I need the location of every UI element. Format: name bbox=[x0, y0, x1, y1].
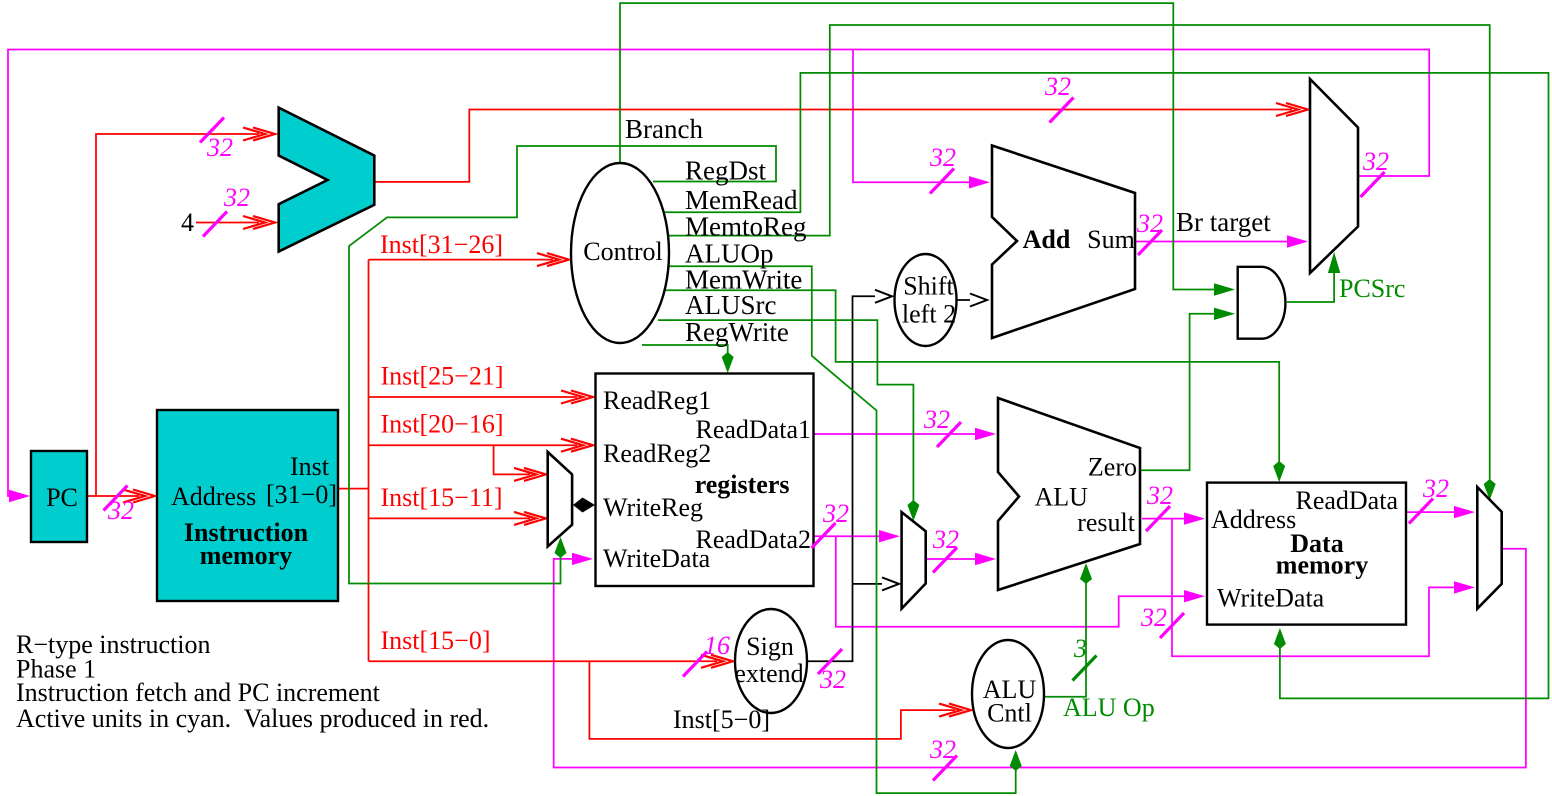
arrowhead into mux M4 input 0 bbox=[1454, 506, 1475, 518]
wire net ALU control lines from ALU Cntl to ALU bbox=[1045, 577, 1087, 697]
mux M3 (PCSrc mux) bbox=[1310, 79, 1358, 273]
svg-text:Inst[31−26]: Inst[31−26] bbox=[380, 230, 503, 259]
svg-text:Inst[20−16]: Inst[20−16] bbox=[381, 410, 504, 439]
wire net Shift left 2 output to Add input 2 bbox=[956, 299, 970, 301]
svg-text:32: 32 bbox=[1140, 603, 1167, 632]
arrowhead into Data memory Address bbox=[1184, 512, 1205, 524]
svg-text:memory: memory bbox=[200, 541, 292, 570]
svg-text:Shift: Shift bbox=[903, 272, 954, 301]
svg-text:32: 32 bbox=[1146, 481, 1173, 510]
wire net RegDst from Control to mux M1 select bbox=[349, 146, 776, 584]
svg-text:Address: Address bbox=[171, 482, 256, 511]
svg-text:RegWrite: RegWrite bbox=[685, 317, 789, 347]
svg-text:32: 32 bbox=[223, 183, 250, 212]
arrowhead into Data memory bottom MemRead bbox=[1274, 628, 1286, 649]
svg-text:Inst[15−0]: Inst[15−0] bbox=[381, 626, 491, 655]
wire net Inst[31-26] to Control bbox=[369, 259, 554, 261]
wire net PCnext: mux M3 output right, up, left along top, down to PC input bbox=[8, 50, 1429, 497]
bus width slash on PC to Instruction memory bbox=[104, 486, 128, 511]
svg-text:result: result bbox=[1077, 508, 1136, 537]
svg-text:left 2: left 2 bbox=[902, 300, 956, 329]
wire net ReadData1 to ALU input 1 bbox=[812, 433, 980, 435]
bus width slash on Sign extend output bbox=[818, 649, 842, 674]
wire net ALUSrc from Control to mux M2 select bbox=[658, 320, 913, 507]
svg-text:extend: extend bbox=[734, 659, 803, 688]
arrowhead into ReadReg1 bbox=[561, 391, 593, 404]
arrowhead into mux M4 select bbox=[1484, 479, 1496, 500]
svg-text:Inst[15−11]: Inst[15−11] bbox=[381, 483, 503, 512]
svg-text:Sign: Sign bbox=[746, 632, 794, 661]
arrowhead into registers WriteData bbox=[572, 553, 593, 565]
wire net MemWrite from Control to Data memory top bbox=[665, 290, 1279, 468]
arrowhead into Add input 1 bbox=[969, 176, 990, 188]
arrowhead into mux M3 input 0 bbox=[1276, 103, 1308, 116]
svg-text:WriteReg: WriteReg bbox=[603, 493, 703, 522]
wire net Inst[20-16] branch down to mux M1 input 0 bbox=[494, 445, 530, 474]
svg-text:Add: Add bbox=[1023, 225, 1071, 254]
svg-text:memory: memory bbox=[1276, 551, 1368, 580]
svg-text:ReadReg1: ReadReg1 bbox=[603, 386, 711, 415]
arrowhead into Add input 2 bbox=[970, 294, 987, 307]
bus width slash on Inst[15-0] to Sign extend bbox=[683, 652, 707, 677]
wire net Inst[25-21] to registers ReadReg1 bbox=[369, 396, 578, 398]
arrowhead into Instruction memory Address bbox=[123, 490, 155, 503]
svg-text:Active units in cyan. Values: Active units in cyan. Values produced in… bbox=[16, 704, 489, 733]
wire instruction bus vertical trunk bbox=[368, 260, 370, 662]
bus width slash on ALU result to Data memory Address bbox=[1146, 506, 1170, 531]
wire net MemtoReg from Control along top to mux M4 select bbox=[667, 25, 1490, 486]
ALU unit bbox=[998, 398, 1140, 590]
Add unit bbox=[992, 146, 1135, 339]
svg-text:ALU Op: ALU Op bbox=[1063, 693, 1155, 722]
bus width slash on Sum to mux M3 bbox=[1138, 230, 1162, 255]
bus width slash on ReadData2 output bbox=[812, 523, 836, 548]
arrowhead into Data memory top MemWrite bbox=[1273, 461, 1285, 482]
wire net PC+4 from adder output to mux M3 input 0 bbox=[374, 110, 1292, 182]
wire net ReadData2 to mux M2 input 0 bbox=[812, 535, 884, 537]
svg-text:Inst: Inst bbox=[290, 452, 330, 481]
wire net Inst[5-0] to ALU Cntl bbox=[589, 661, 955, 739]
bus width slash on mux M2 output to ALU bbox=[933, 548, 957, 573]
wire net constant 4 to adder input 2 bbox=[196, 222, 259, 224]
wire net Inst[31-0] from Instruction memory bbox=[337, 488, 369, 490]
svg-text:ReadData: ReadData bbox=[1295, 486, 1398, 515]
arrowhead into mux M1 input 0 bbox=[514, 468, 546, 481]
wire net PC output to Instruction memory Address bbox=[87, 495, 139, 497]
arrowhead into AND gate input 1 bbox=[1214, 283, 1235, 295]
wire net ReadData2 branch down and right to Data memory WriteData bbox=[836, 536, 1188, 627]
svg-text:[31−0]: [31−0] bbox=[266, 480, 337, 509]
svg-text:Inst[5−0]: Inst[5−0] bbox=[673, 705, 770, 734]
adder PC+4 (active, cyan) bbox=[279, 108, 375, 252]
ALU Cntl unit bbox=[972, 640, 1044, 748]
wire net MemRead from Control around right edge to Data memory bottom bbox=[662, 73, 1549, 699]
arrowhead into ALU input 1 bbox=[975, 428, 996, 440]
svg-text:MemRead: MemRead bbox=[685, 185, 798, 215]
arrowhead into ReadReg2 bbox=[561, 439, 593, 452]
wire net PC value up to adder input 1 bbox=[96, 134, 259, 496]
svg-text:32: 32 bbox=[1362, 147, 1389, 176]
svg-text:Zero: Zero bbox=[1088, 453, 1137, 482]
bus width slash on ALU Cntl to ALU bbox=[1073, 656, 1097, 681]
Shift left 2 unit bbox=[895, 254, 957, 346]
svg-text:32: 32 bbox=[822, 499, 849, 528]
svg-text:Br target: Br target bbox=[1176, 207, 1271, 237]
svg-text:ReadData2: ReadData2 bbox=[695, 525, 811, 554]
arrowhead into Control bbox=[537, 253, 569, 266]
wire net Sum / Br target to mux M3 input 1 bbox=[1135, 241, 1291, 243]
mux M4 (MemtoReg mux) bbox=[1477, 487, 1501, 609]
svg-text:Inst[25−21]: Inst[25−21] bbox=[381, 362, 504, 391]
arrowhead into AND gate input 2 bbox=[1214, 308, 1235, 320]
svg-text:registers: registers bbox=[695, 470, 790, 499]
wire net Data memory ReadData to mux M4 input 0 bbox=[1405, 511, 1459, 513]
arrowhead into registers top RegWrite bbox=[722, 352, 734, 373]
arrowhead into adder input 1 bbox=[243, 128, 275, 141]
svg-text:Cntl: Cntl bbox=[987, 699, 1032, 728]
arrowhead into ALU bottom bbox=[1080, 563, 1092, 584]
arrowhead into mux M3 input 1 bbox=[1287, 235, 1308, 247]
wire net PCSrc from AND gate to mux M3 select bbox=[1287, 268, 1334, 302]
wire net ALUOp from Control down to ALU Cntl bbox=[668, 266, 1016, 793]
wire net Zero from ALU to AND gate input 2 bbox=[1140, 314, 1219, 471]
svg-text:Control: Control bbox=[583, 237, 662, 266]
black diamond arrow: mux M1 output to WriteReg bbox=[573, 498, 595, 513]
arrowhead into mux M4 input 1 bbox=[1454, 581, 1475, 593]
arrowhead into Data memory WriteData bbox=[1184, 590, 1205, 602]
svg-text:Sum: Sum bbox=[1087, 225, 1135, 254]
wire net RegWrite from Control to registers bbox=[642, 345, 728, 358]
svg-text:32: 32 bbox=[1422, 474, 1449, 503]
wire net ALU result branch down, right, up to mux M4 input 1 bbox=[1172, 519, 1459, 657]
svg-text:32: 32 bbox=[206, 133, 233, 162]
mux M1 (RegDst mux) bbox=[548, 452, 572, 547]
svg-text:PC: PC bbox=[46, 483, 78, 512]
arrowhead into PC bbox=[9, 490, 30, 502]
svg-text:3: 3 bbox=[1073, 634, 1087, 663]
svg-text:MemtoReg: MemtoReg bbox=[685, 212, 807, 242]
wire net PC to Add input 1 bbox=[853, 50, 973, 183]
wire net mux M4 output writeback to registers WriteData bbox=[554, 549, 1526, 768]
bus width slash on ReadData1 to ALU bbox=[937, 422, 961, 447]
bus width slash on path to Data memory WriteData bbox=[1160, 613, 1184, 638]
bus width slash on constant 4 to adder input 2 bbox=[203, 212, 227, 237]
arrowhead into mux M1 input 1 bbox=[514, 512, 546, 525]
arrowhead into Shift left 2 bbox=[875, 290, 892, 303]
bus width slash on PC+4 to mux M3 bbox=[1050, 98, 1074, 123]
wire net Inst[20-16] to registers ReadReg2 bbox=[369, 444, 578, 446]
arrowhead into mux M2 select bbox=[907, 500, 919, 521]
svg-text:32: 32 bbox=[1136, 209, 1163, 238]
svg-text:16: 16 bbox=[704, 631, 730, 660]
svg-text:ALUSrc: ALUSrc bbox=[685, 290, 776, 320]
svg-text:32: 32 bbox=[1044, 72, 1071, 101]
arrowhead into mux M2 input 0 bbox=[879, 530, 900, 542]
bus width slash on mux M3 output bbox=[1361, 172, 1385, 197]
svg-text:PCSrc: PCSrc bbox=[1339, 274, 1405, 303]
arrowhead into ALU Cntl bottom bbox=[1010, 750, 1022, 771]
wire net sign-extended immediate branch to mux M2 input 1 bbox=[853, 583, 883, 585]
wire net ALU result to Data memory Address bbox=[1142, 518, 1189, 520]
svg-text:32: 32 bbox=[932, 525, 959, 554]
svg-text:ReadData1: ReadData1 bbox=[695, 415, 811, 444]
arrowhead into mux M2 input 1 bbox=[882, 577, 899, 590]
wire net sign-extended immediate up to Shift left 2 bbox=[807, 296, 875, 661]
arrowhead into ALU input 2 bbox=[975, 553, 996, 565]
svg-text:Address: Address bbox=[1211, 505, 1296, 534]
svg-text:WriteData: WriteData bbox=[603, 544, 711, 573]
wire net mux M2 output to ALU input 2 bbox=[926, 558, 980, 560]
svg-text:32: 32 bbox=[923, 405, 950, 434]
svg-text:Instruction fetch and PC incre: Instruction fetch and PC increment bbox=[16, 678, 381, 707]
bus width slash on PC to adder input 1 bbox=[200, 118, 224, 143]
Data memory unit bbox=[1207, 483, 1406, 625]
arrowhead into adder input 2 bbox=[243, 216, 275, 229]
register PC (active, cyan) bbox=[31, 451, 87, 542]
arrowhead into mux M3 select bbox=[1328, 252, 1340, 273]
svg-text:Branch: Branch bbox=[625, 114, 703, 144]
svg-text:32: 32 bbox=[929, 143, 956, 172]
svg-text:RegDst: RegDst bbox=[685, 156, 766, 186]
bus width slash on Data memory ReadData bbox=[1409, 499, 1433, 524]
svg-text:4: 4 bbox=[181, 208, 194, 237]
bus width slash on writeback to registers WriteData bbox=[933, 756, 957, 781]
svg-text:WriteData: WriteData bbox=[1217, 584, 1325, 613]
wire net Inst[15-11] to mux M1 input 1 bbox=[369, 517, 531, 519]
arrowhead into ALU Cntl bbox=[939, 704, 971, 717]
svg-text:32: 32 bbox=[107, 496, 134, 525]
bus width slash on PC to Add input 1 bbox=[930, 169, 954, 194]
registers unit bbox=[596, 374, 814, 587]
Sign extend unit bbox=[735, 609, 807, 713]
AND gate (PCSrc) bbox=[1238, 267, 1286, 339]
svg-text:32: 32 bbox=[929, 735, 956, 764]
svg-text:ReadReg2: ReadReg2 bbox=[603, 439, 711, 468]
arrowhead into Sign extend bbox=[701, 655, 733, 668]
Instruction memory unit (active, cyan) bbox=[157, 410, 338, 601]
svg-text:32: 32 bbox=[819, 665, 846, 694]
wire net Inst[15-0] to Sign extend bbox=[369, 660, 718, 662]
mux M2 (ALUSrc mux) bbox=[902, 512, 926, 609]
op-amp style oval: Control unit bbox=[571, 163, 669, 343]
wire net Branch from Control top to AND gate input 1 bbox=[620, 3, 1219, 289]
arrowhead into mux M1 select bbox=[555, 537, 567, 558]
